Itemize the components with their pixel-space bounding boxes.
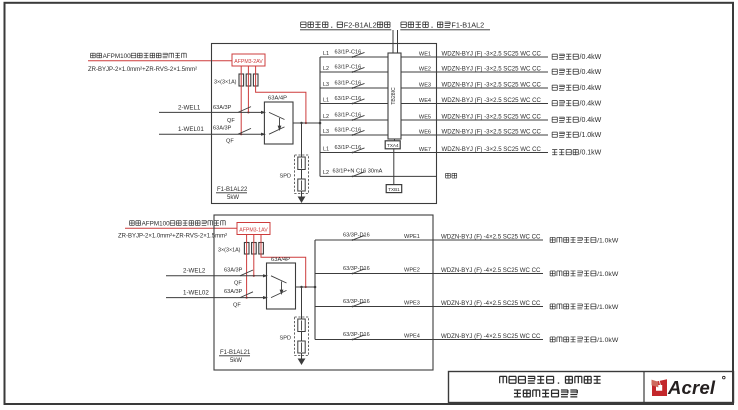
wire: feeder 2-WEL2 [166,268,268,278]
current transformers CT2 3x(3x1A) (lower) [244,243,263,255]
logo: Acrel [652,376,726,398]
label: load description WPE4 [550,337,619,344]
label: wire WE6 [419,129,431,135]
title block [449,372,734,403]
wire: voltage tap to feeder 1-WEL02 [246,235,248,299]
bus: vertical distribution bus (lower) [314,240,316,340]
svg-text:WDZN-BYJ (F) -4×2.5 SC25 WC CC: WDZN-BYJ (F) -4×2.5 SC25 WC CC [441,267,541,274]
breaker 63/3P-D16 (WPE1) [343,233,370,241]
wire: feeder 2-WEL1 [159,104,266,114]
label: load description row 7 [552,150,602,157]
wire: branch circuit WPE4 [315,339,543,341]
svg-text:WE4: WE4 [419,98,431,104]
label: load description WPE1 [550,237,619,244]
node: link to AFPM100 monitor (lower) [118,220,227,239]
label: wire WPE1 [404,234,420,240]
svg-text:WDZN-BYJ (F) -3×2.5 SC25 WC CC: WDZN-BYJ (F) -3×2.5 SC25 WC CC [442,128,542,135]
svg-text:F1-B1AL2: F1-B1AL2 [451,20,484,29]
wire: voltage tap to feeder 2-WEL2 [253,235,255,277]
svg-text:63/1P-C16: 63/1P-C16 [335,96,362,102]
label: wire WE4 [419,98,431,104]
breaker 63/1P-C16 (row 4) [335,96,365,104]
module TXB1 [386,185,402,193]
svg-text:63A/3P: 63A/3P [213,105,232,111]
bus: vertical distribution bus (upper) [319,57,321,176]
wire: spare branch (row 8) [320,170,437,176]
svg-text:WE1: WE1 [419,51,431,57]
svg-text:63/1P-C16: 63/1P-C16 [335,65,362,71]
label: wire WE3 [419,82,431,88]
wire: feeder 1-WEL02 [166,289,268,299]
breaker 63/3P-D16 (WPE4) [343,332,370,340]
label: cable spec row 7 [442,146,542,153]
svg-text:WDZN-BYJ (F) -3×2.5 SC25 WC CC: WDZN-BYJ (F) -3×2.5 SC25 WC CC [442,65,542,72]
wire: branch circuit WPE2 [315,273,543,275]
svg-text:TB28IC: TB28IC [391,87,397,105]
ground (upper SPD) [298,197,306,204]
label: load description WPE2 [550,271,619,278]
label: cable spec WPE2 [441,267,541,274]
wire: branch circuit WE1 (row 1) [320,51,548,57]
svg-text:/1.0kW: /1.0kW [597,237,619,244]
svg-text:/1.0kW: /1.0kW [597,271,619,278]
svg-text:5kW: 5kW [227,195,239,201]
wire: branch circuit WE4 (row 4) [320,97,548,103]
label: wire WPE2 [404,268,420,274]
svg-text:WDZN-BYJ (F) -3×2.5 SC25 WC CC: WDZN-BYJ (F) -3×2.5 SC25 WC CC [442,146,542,153]
svg-text:WPE2: WPE2 [404,268,420,274]
svg-text:WDZN-BYJ (F) -4×2.5 SC25 WC CC: WDZN-BYJ (F) -4×2.5 SC25 WC CC [441,233,541,240]
label: cable spec row 6 [442,128,542,135]
label: drawing title [500,376,601,397]
svg-text:/0.4kW: /0.4kW [580,54,602,61]
wire: ATS output to bus (lower) [296,286,317,289]
wire: branch circuit WPE3 [315,306,543,308]
svg-text:ZR-BYJP-2×1.0mm²+ZR-RVS-2×1.5m: ZR-BYJP-2×1.0mm²+ZR-RVS-2×1.5mm² [88,67,197,73]
svg-text:SPD: SPD [280,336,292,342]
svg-text:QF: QF [227,118,235,124]
svg-text:AFPM3-1AV: AFPM3-1AV [239,228,268,234]
svg-text:WE3: WE3 [419,82,431,88]
transfer switch Q1: dual-power ATS 63A/4P (upper) [264,96,293,144]
svg-text:WDZN-BYJ (F) -3×2.5 SC25 WC CC: WDZN-BYJ (F) -3×2.5 SC25 WC CC [442,97,542,104]
wire: branch circuit WE3 (row 3) [320,82,548,88]
svg-text:ZR-BYJP-2×1.0mm²+ZR-RVS-2×1.5m: ZR-BYJP-2×1.0mm²+ZR-RVS-2×1.5mm² [118,234,227,240]
svg-text:/1.0kW: /1.0kW [580,132,602,139]
svg-text:63/1P-C16: 63/1P-C16 [335,81,362,87]
svg-text:63/3P-D16: 63/3P-D16 [343,266,370,272]
svg-text:QF: QF [234,281,242,287]
breaker QF (63A/3P) on 2-WEL2 [224,267,253,286]
svg-text:/1.0kW: /1.0kW [597,304,619,311]
svg-text:TXA4: TXA4 [387,143,399,148]
label: load description row 3 [552,85,602,92]
svg-text:L3: L3 [323,82,329,88]
svg-text:63A/4P: 63A/4P [271,257,290,263]
label: CT ratio (lower) [218,247,241,253]
wire: voltage tap to ATS output (lower) [261,235,307,289]
svg-text:63/1P-C16: 63/1P-C16 [335,50,362,56]
svg-text:L1: L1 [323,97,329,103]
label: cable spec row 2 [442,65,542,72]
wire: branch circuit WE2 (row 2) [320,66,548,72]
label: wire WE1 [419,51,431,57]
svg-text:WDZN-BYJ (F) -3×2.5 SC25 WC CC: WDZN-BYJ (F) -3×2.5 SC25 WC CC [442,50,542,57]
svg-text:3×(3×1A): 3×(3×1A) [218,247,241,253]
breaker 63/1P-C16 (row 1) [335,50,365,58]
breaker 63/1P-C16 (row 7) [335,145,365,153]
wire: branch circuit WE5 (row 5) [320,114,548,120]
svg-text:63A/4P: 63A/4P [268,96,287,102]
label: spare 备用 [446,173,457,178]
svg-text:63/1P-C16: 63/1P-C16 [335,128,362,134]
svg-text:L1: L1 [323,51,329,57]
wire: TB to TXB1 link [393,139,396,185]
svg-text:63/3P-D16: 63/3P-D16 [343,299,370,305]
current transformers CT1 3x(3x1A) (upper) [239,74,258,86]
svg-text:/0.4kW: /0.4kW [580,101,602,108]
svg-text:/0.4kW: /0.4kW [580,85,602,92]
label: load description row 2 [552,69,602,76]
breaker 63/3P-D16 (WPE2) [343,266,370,274]
wire: ATS output to bus (upper) [293,122,321,125]
wire: voltage tap to feeder 2-WEL1 [247,66,249,114]
label: cable spec row 1 [442,50,542,57]
svg-text:63A/3P: 63A/3P [224,289,243,295]
wire: voltage tap to feeder 1-WEL01 [240,66,242,135]
breaker 63/1P-C16 (row 2) [335,65,365,73]
svg-text:5kW: 5kW [230,358,242,364]
label: wire WE5 [419,114,431,120]
svg-text:WE2: WE2 [419,66,431,72]
panel box F1-B1AL22 [212,44,437,204]
svg-text:F1-B1AL21: F1-B1AL21 [220,350,251,356]
svg-text:WPE3: WPE3 [404,301,420,307]
svg-text:WDZN-BYJ (F) -4×2.5 SC25 WC CC: WDZN-BYJ (F) -4×2.5 SC25 WC CC [441,333,541,340]
svg-text:AFPM100: AFPM100 [142,220,170,227]
svg-text:WE7: WE7 [419,147,431,153]
label: cable spec row 3 [442,81,542,88]
transfer switch Q2: dual-power ATS 63A/4P (lower) [267,257,296,309]
svg-text:WPE4: WPE4 [404,334,420,340]
svg-text:/1.0kW: /1.0kW [597,337,619,344]
label: load description row 6 [552,132,602,139]
svg-text:F1-B1AL22: F1-B1AL22 [217,187,248,193]
label: wire WPE4 [404,334,420,340]
ground (lower SPD) [298,359,306,366]
svg-text:63A/3P: 63A/3P [224,267,243,273]
label: load description WPE3 [550,304,619,311]
svg-text:L2: L2 [323,114,329,120]
svg-text:SPD: SPD [280,174,292,180]
svg-text:QF: QF [233,302,241,308]
label: panel name F1-B1AL22 / 5kW [216,187,248,201]
surge protector SPD with fuse (upper) [280,122,309,197]
label: wire WPE3 [404,301,420,307]
wire: voltage tap to ATS output (upper) [256,66,307,124]
svg-text:L1: L1 [323,146,329,152]
node: incoming/outgoing fire-signal note [300,20,490,30]
wire: branch circuit WE7 (row 7) [320,146,548,152]
breaker 63/1P-C16 (row 5) [335,113,365,121]
label: cable spec row 5 [442,113,542,120]
node: link to AFPM100 monitor (upper) [88,53,197,73]
label: load description row 4 [552,101,602,108]
breaker 63/1P+N C16 30mA (row 8) [333,168,383,177]
svg-text:WDZN-BYJ (F) -4×2.5 SC25 WC CC: WDZN-BYJ (F) -4×2.5 SC25 WC CC [441,300,541,307]
svg-text:/0.4kW: /0.4kW [580,69,602,76]
svg-text:WE6: WE6 [419,129,431,135]
module U2: AFPM3-1AV fire power monitor [237,223,270,235]
svg-text:WDZN-BYJ (F) -3×2.5 SC25 WC CC: WDZN-BYJ (F) -3×2.5 SC25 WC CC [442,81,542,88]
wire: branch circuit WPE1 [315,239,543,241]
breaker QF (63A/3P) on 1-WEL01 [213,125,251,144]
label: load description row 5 [552,117,602,124]
label: cable spec row 4 [442,97,542,104]
svg-text:L2: L2 [323,170,329,176]
svg-text:63A/3P: 63A/3P [213,125,232,131]
wire: red signal line to AFPM3 module (upper) [88,60,232,62]
svg-text:AFPM3-2AV: AFPM3-2AV [234,59,263,65]
svg-text:2-WEL2: 2-WEL2 [183,268,206,275]
svg-text:F2-B1AL2: F2-B1AL2 [344,20,377,29]
svg-text:1-WEL01: 1-WEL01 [178,126,204,133]
breaker QF (63A/3P) on 1-WEL02 [224,289,253,308]
svg-text:Acrel: Acrel [667,377,716,398]
svg-text:L3: L3 [323,129,329,135]
module U1: AFPM3-2AV fire power monitor [232,54,265,66]
svg-text:WE5: WE5 [419,114,431,120]
label: cable spec WPE4 [441,333,541,340]
label: wire WE2 [419,66,431,72]
svg-text:63/1P-C16: 63/1P-C16 [335,145,362,151]
label: panel name F1-B1AL21 / 5kW [219,350,251,364]
svg-text:3×(3×1A): 3×(3×1A) [214,80,237,86]
wire: signal pair drop to terminal block [393,30,398,53]
svg-text:63/3P-D16: 63/3P-D16 [343,233,370,239]
breaker 63/1P-C16 (row 6) [335,128,365,136]
svg-text:L2: L2 [323,66,329,72]
panel box F1-B1AL21 [214,215,433,370]
svg-text:AFPM100: AFPM100 [103,53,131,60]
svg-text:63/1P-C16: 63/1P-C16 [335,113,362,119]
module TXA4 [385,141,400,149]
wire: red signal line to AFPM3 module (lower) [125,227,237,229]
breaker QF (63A/3P) on 2-WEL1 [213,105,251,124]
label: load description row 1 [552,54,602,61]
svg-text:63/3P-D16: 63/3P-D16 [343,332,370,338]
wire: branch circuit WE6 (row 6) [320,129,548,135]
svg-text:1-WEL02: 1-WEL02 [183,289,209,296]
svg-text:WDZN-BYJ (F) -3×2.5 SC25 WC CC: WDZN-BYJ (F) -3×2.5 SC25 WC CC [442,113,542,120]
svg-text:/0.1kW: /0.1kW [580,150,602,157]
label: cable spec WPE1 [441,233,541,240]
svg-text:TXB1: TXB1 [388,187,400,192]
label: CT ratio (upper) [214,80,237,86]
terminal block TB28IC [388,53,401,139]
label: cable spec WPE3 [441,300,541,307]
svg-text:WPE1: WPE1 [404,234,420,240]
label: wire WE7 [419,147,431,153]
breaker 63/3P-D16 (WPE3) [343,299,370,307]
wire: feeder 1-WEL01 [159,126,266,136]
svg-text:2-WEL1: 2-WEL1 [178,104,201,111]
svg-text:/0.4kW: /0.4kW [580,117,602,124]
surge protector SPD with fuse (lower) [280,286,309,359]
svg-text:63/1P+N C16 30mA: 63/1P+N C16 30mA [333,168,383,174]
breaker 63/1P-C16 (row 3) [335,81,365,89]
svg-text:QF: QF [226,139,234,145]
